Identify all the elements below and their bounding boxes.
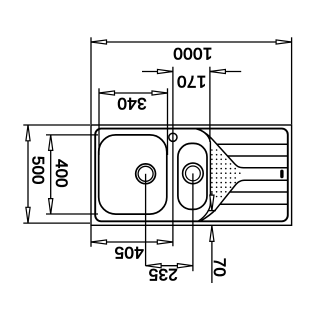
svg-text:1000: 1000 bbox=[173, 44, 212, 63]
svg-text:405: 405 bbox=[114, 243, 144, 262]
svg-text:500: 500 bbox=[29, 156, 47, 185]
svg-text:170: 170 bbox=[177, 72, 207, 91]
svg-text:340: 340 bbox=[117, 94, 147, 113]
svg-text:70: 70 bbox=[210, 258, 228, 277]
svg-text:400: 400 bbox=[52, 159, 70, 188]
svg-text:235: 235 bbox=[148, 265, 178, 284]
